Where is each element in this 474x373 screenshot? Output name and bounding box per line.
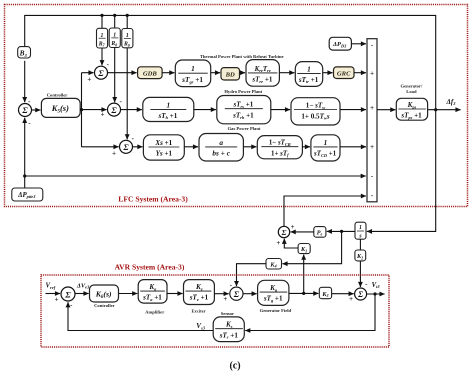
svg-text:Σ: Σ — [122, 142, 129, 152]
AVR dotted boundary box — [41, 275, 389, 347]
svg-text:+: + — [276, 240, 280, 247]
wire: K5 output to hydro sum (middle) — [80, 109, 106, 111]
svg-text:+: + — [349, 296, 353, 303]
summing junction AVR output — [355, 288, 367, 300]
wire: combustor to compressor — [302, 146, 310, 148]
block generator Kps/(sTps+1) — [396, 98, 427, 120]
node Vt3 — [373, 292, 376, 295]
block hydro governor 1/(sTh+1) — [143, 97, 194, 121]
svg-text:Vs3: Vs3 — [196, 322, 205, 330]
block K3 — [319, 287, 331, 298]
svg-text:GDB: GDB — [143, 70, 158, 77]
svg-text:Sensor: Sensor — [221, 311, 234, 316]
svg-text:-: - — [28, 120, 31, 127]
svg-text:1: 1 — [307, 64, 311, 73]
wire: GDB to governor — [162, 72, 174, 74]
block GRC — [334, 67, 355, 79]
wire: stub to tie-line label block — [24, 176, 26, 188]
svg-text:sTa +1: sTa +1 — [142, 294, 162, 302]
svg-text:Gas Power Plant: Gas Power Plant — [228, 126, 261, 131]
svg-text:ΔVe3: ΔVe3 — [76, 282, 90, 289]
block hydro penstock (1-sTw)/(1+0.5Tw s) — [291, 98, 340, 125]
svg-text:bs + c: bs + c — [212, 149, 230, 158]
wire: BD to reheat — [240, 72, 246, 74]
node tap R3 — [126, 14, 129, 17]
svg-text:GRC: GRC — [337, 70, 351, 77]
block K1 — [298, 244, 310, 254]
wire: K3 to AVR output sum — [332, 293, 354, 295]
svg-text:-: - — [107, 62, 110, 69]
block K2 — [355, 250, 366, 261]
summing junction coupling — [278, 226, 289, 237]
block 1/s integrator — [355, 222, 366, 239]
svg-text:-: - — [70, 302, 73, 309]
node tap R2 — [113, 14, 116, 17]
block amplifier Ka/(sTa+1) — [138, 280, 167, 304]
svg-text:Ys +1: Ys +1 — [156, 150, 173, 158]
svg-text:Σ: Σ — [97, 68, 104, 78]
block hydro droop (sTrs+1)/(sTrh+1) — [217, 96, 271, 124]
wire: sensor output back to AVR sum — [68, 302, 213, 330]
svg-text:1: 1 — [191, 64, 195, 73]
wire: GRC to main sum — [354, 72, 366, 74]
svg-text:sTe +1: sTe +1 — [189, 294, 209, 302]
svg-text:-: - — [365, 281, 368, 288]
wire: exciter to exciter sum — [214, 293, 228, 295]
node tap R1 — [100, 14, 103, 17]
summing junction gas — [120, 140, 133, 153]
block gas governor (Xs+1)/(Ys+1) — [143, 135, 184, 160]
svg-text:Exciter: Exciter — [191, 308, 205, 313]
wire: gas sum to gas governor — [133, 146, 143, 148]
node tie-line junction — [23, 174, 26, 177]
wire: hydro gov to droop compensator — [194, 109, 216, 111]
block thermal turbine 1/(sTtr+1) — [295, 62, 322, 87]
wire: exciter sum to generator field — [243, 293, 257, 295]
svg-text:sTg +1: sTg +1 — [263, 295, 283, 303]
summing junction ACE (area-3) — [19, 104, 32, 117]
svg-text:+: + — [55, 296, 59, 303]
svg-text:Xs +1: Xs +1 — [154, 139, 172, 147]
summing block main (tall rectangle) — [367, 39, 377, 202]
svg-text:+: + — [101, 112, 105, 119]
wire: governor to BD — [211, 72, 220, 74]
block K4 — [266, 259, 282, 270]
block exciter Ke/(sTe+1) — [184, 280, 215, 305]
wire: tie-line signal up into ACE sum — [24, 118, 26, 176]
wire: tap into 1/R7 — [101, 15, 103, 28]
LFC dotted boundary box — [5, 5, 468, 207]
svg-text:Hydro Power Plant: Hydro Power Plant — [224, 89, 262, 94]
svg-text:+: + — [370, 70, 374, 77]
wire: K4 to exciter sum — [237, 264, 267, 286]
wire: tap into 1/R9 — [126, 15, 128, 28]
svg-text:BD: BD — [225, 71, 235, 78]
svg-text:-: - — [120, 98, 123, 105]
svg-text:(c): (c) — [229, 361, 240, 372]
summing junction AVR input — [61, 287, 75, 301]
svg-text:Δf3: Δf3 — [446, 98, 457, 106]
svg-text:LFC System (Area-3): LFC System (Area-3) — [118, 195, 188, 204]
summing junction exciter-field — [230, 287, 243, 300]
wire: AVR output Vt3 — [367, 293, 385, 295]
wire: penstock to main sum — [340, 109, 366, 111]
svg-text:+: + — [370, 105, 374, 112]
svg-text:+: + — [112, 150, 116, 157]
svg-text:+: + — [87, 76, 91, 83]
wire: ACE sum to controller K5 — [32, 109, 41, 111]
svg-text:Generator/: Generator/ — [401, 84, 423, 89]
block K5(s) controller — [41, 98, 80, 117]
svg-text:sTtr +1: sTtr +1 — [298, 76, 319, 84]
block 1/R7 — [97, 28, 108, 48]
node K5 fanout — [80, 108, 83, 111]
svg-text:-: - — [132, 136, 135, 143]
svg-text:sTre +1: sTre +1 — [251, 76, 273, 84]
svg-text:Controller: Controller — [47, 93, 68, 98]
wire: delta f3 down to 1/s integrator — [367, 110, 436, 232]
wire: reheat to turbine — [279, 72, 294, 74]
block delta PD3 load disturbance — [329, 37, 351, 50]
wire: fanout to gas sum — [82, 146, 119, 148]
wire: 1/R7 to thermal sum — [101, 48, 103, 65]
block thermal governor 1/(sTgr+1) — [175, 60, 210, 87]
svg-text:K6(s): K6(s) — [95, 290, 112, 301]
wire: amplifier to exciter — [167, 293, 183, 295]
block BD — [221, 68, 240, 80]
wire: 1/R8 to hydro sum — [114, 48, 116, 103]
wire: compressor to main sum — [340, 146, 366, 148]
block K6(s) controller — [90, 285, 119, 302]
wire: field node up to K1 — [303, 255, 305, 294]
node delta (angle) junction — [340, 230, 343, 233]
svg-text:Σ: Σ — [21, 105, 28, 115]
block GDB — [138, 67, 163, 79]
wire: main sum to generator block — [377, 109, 395, 111]
wire: gas gov to valve — [184, 146, 198, 148]
wire: top frequency feedback line — [25, 15, 436, 109]
svg-text:Load: Load — [406, 89, 417, 94]
svg-text:Vref: Vref — [46, 283, 56, 290]
svg-text:Amplifier: Amplifier — [145, 309, 164, 314]
svg-text:Σ: Σ — [233, 289, 240, 299]
wire: fanout to thermal sum — [82, 72, 94, 74]
wire: Vt3 feedback down to sensor — [245, 294, 375, 331]
svg-text:Σ: Σ — [281, 228, 287, 237]
wire: fanout vertical — [81, 73, 83, 147]
wire: Pe to coupling sum — [291, 231, 314, 233]
block delta P tie3 label — [12, 188, 43, 201]
wire: tap into 1/R8 — [114, 15, 116, 28]
block gas combustor (1-sTcr)/(1+sTf) — [257, 136, 302, 159]
wire: Vref input into AVR sum — [46, 293, 61, 295]
block generator field Kg/(sTg+1) — [258, 280, 289, 305]
block 1/R8 — [109, 28, 120, 48]
svg-text:Σ: Σ — [357, 290, 363, 299]
block Pe — [314, 227, 326, 238]
wire: generator output delta f3 — [428, 109, 461, 111]
svg-text:1+ sTf: 1+ sTf — [271, 150, 289, 157]
svg-text:+: + — [370, 144, 374, 151]
summing junction thermal — [95, 66, 108, 79]
node field output junction — [302, 292, 305, 295]
wire: hydro sum to hydro governor — [121, 109, 142, 111]
block 1/R9 — [122, 29, 133, 48]
wire: 1/R9 to gas sum — [126, 48, 128, 140]
svg-text:a: a — [219, 138, 223, 147]
svg-text:1: 1 — [166, 100, 170, 109]
block B3 — [18, 47, 31, 58]
wire: turbine to GRC — [323, 72, 333, 74]
svg-text:1: 1 — [324, 138, 328, 147]
wire: tie-line long line to main sum — [25, 175, 366, 177]
block gas valve a/(bs+c) — [199, 134, 243, 162]
summing junction hydro — [108, 103, 121, 116]
svg-text:Vt3: Vt3 — [372, 282, 381, 289]
svg-text:Σ: Σ — [110, 105, 117, 115]
wire: AVR sum to controller K6 — [75, 293, 89, 295]
wire: delta PD3 to main sum — [351, 43, 366, 45]
svg-text:Thermal Power Plant with Rehea: Thermal Power Plant with Reheat Turbine — [200, 54, 284, 59]
block gas compressor 1/(sTcd+1) — [311, 135, 340, 161]
svg-text:+: + — [291, 224, 295, 231]
wire: 1/s down to K2 — [359, 239, 361, 250]
wire: K1 to coupling sum — [284, 239, 298, 248]
svg-text:1: 1 — [359, 225, 362, 231]
wire: droop to penstock — [271, 109, 290, 111]
node delta f3 — [434, 108, 437, 111]
svg-text:+: + — [223, 296, 227, 303]
wire: valve to combustor — [243, 146, 256, 148]
svg-text:Generator Field: Generator Field — [260, 308, 292, 313]
wire: field to K3 — [289, 292, 319, 294]
svg-text:sTrs +1: sTrs +1 — [232, 101, 253, 109]
wire: angle node down to K4 — [282, 231, 341, 263]
block sensor Ks/(sTs+1) — [213, 317, 244, 342]
block reheat KreTre/(sTre+1) — [246, 60, 279, 87]
svg-text:sTs +1: sTs +1 — [219, 331, 239, 339]
svg-text:sTh +1: sTh +1 — [157, 112, 177, 120]
wire: B3 to ACE sum — [24, 61, 26, 102]
svg-text:AVR System (Area-3): AVR System (Area-3) — [115, 263, 185, 272]
svg-text:Controller: Controller — [94, 303, 115, 308]
svg-text:Σ: Σ — [64, 289, 71, 299]
wire: 1/s to Pe — [327, 230, 355, 232]
wire: thermal sum to GDB — [108, 72, 137, 74]
wire: K6 to amplifier — [119, 293, 138, 295]
wire: coupling sum up into main sum — [284, 196, 366, 226]
wire: K2 down to AVR output sum — [359, 261, 361, 287]
